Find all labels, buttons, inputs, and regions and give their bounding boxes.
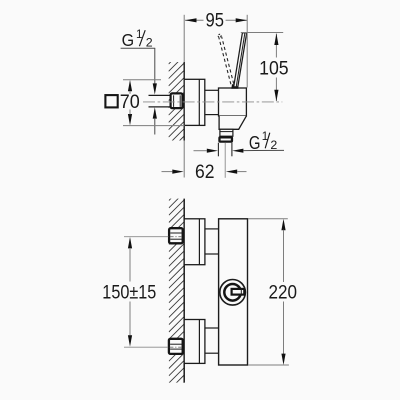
dimension 150±15 (128, 237, 132, 248)
union nut (side view) (171, 93, 183, 108)
connecting stem (side view) (205, 89, 219, 91)
valve body (front view) (219, 219, 248, 365)
svg-text:150±15: 150±15 (102, 282, 156, 303)
wall face line (side view) (183, 62, 185, 141)
lower inlet centerline (150 dim lower extension) (124, 346, 168, 348)
wall hatching (side view) (169, 48, 185, 166)
dimension 220 (248, 218, 288, 220)
upper union nut (front view) (169, 228, 183, 243)
knob outer circle (220, 280, 246, 306)
svg-text:G: G (122, 30, 135, 50)
lower stem (205, 327, 219, 329)
outlet centerline (62 dim right extension) (224, 143, 226, 178)
escutcheon (side view) (184, 79, 205, 125)
extension line above wall (95 dim left extension) (183, 15, 185, 62)
G1/2 left underline and leader (121, 47, 156, 49)
wall face line (front view) (183, 199, 185, 383)
svg-text:220: 220 (269, 283, 298, 304)
lower escutcheon (front view) (184, 320, 205, 364)
svg-text:2: 2 (146, 35, 153, 49)
knob handle bar (232, 289, 245, 295)
upper stem (205, 228, 219, 230)
lower union nut (front view) (169, 339, 183, 354)
svg-text:62: 62 (195, 162, 215, 183)
dimension 70 (123, 79, 161, 81)
valve body (side view) (219, 88, 247, 116)
valve body lower section with chamfer (219, 116, 246, 129)
lever handle (dashed alternate position) (218, 34, 234, 84)
outlet coupling nut G1/2 (219, 137, 232, 141)
svg-text:2: 2 (270, 138, 277, 152)
lever pivot base (231, 84, 238, 89)
wall hatching (front view) (169, 185, 184, 400)
upper inlet centerline (150 dim upper extension) (124, 236, 168, 238)
dimension 105 (275, 34, 277, 101)
outlet collar (220, 129, 233, 136)
G1/2 left lower arrow (153, 107, 157, 118)
knob inner ring (224, 284, 241, 301)
lever handle (solid position) (234, 33, 247, 87)
svg-text:70: 70 (120, 92, 140, 113)
square symbol (105, 95, 117, 107)
upper escutcheon (front view) (184, 219, 205, 265)
dimension 95 (185, 19, 247, 21)
svg-text:105: 105 (259, 59, 289, 80)
svg-text:95: 95 (206, 11, 225, 32)
svg-text:G: G (249, 132, 261, 153)
supply centerline (side view, also 105 lower extension) (143, 101, 282, 103)
95 right extension line (246, 15, 248, 88)
outlet thread lines (217, 143, 219, 157)
lever tip extension line (241, 32, 283, 34)
dimension 62 (162, 171, 173, 173)
supply pipe stub (side view) (149, 95, 171, 107)
G1/2 thread dimension (outlet) (194, 150, 207, 152)
extension line below wall (62 dim left extension) (183, 141, 185, 178)
